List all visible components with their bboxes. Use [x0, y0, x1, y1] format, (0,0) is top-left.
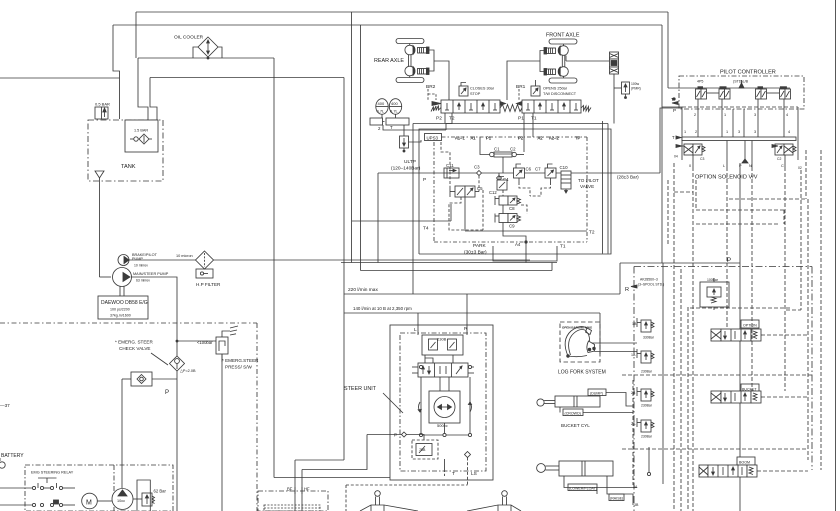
- wire gear pump riser: [121, 379, 123, 488]
- svg-text:(CROWD): (CROWD): [565, 412, 581, 416]
- svg-text:75B: 75B: [419, 448, 426, 452]
- svg-text:100w: 100w: [631, 82, 640, 86]
- spool BOOM: [699, 457, 757, 477]
- pilot controller dashed box: [679, 76, 804, 109]
- svg-text:4: 4: [786, 113, 788, 117]
- svg-text:T1: T1: [560, 244, 566, 250]
- svg-text:T: T: [671, 97, 674, 102]
- svg-text:PARK: PARK: [473, 243, 487, 249]
- svg-text:HF: HF: [304, 487, 310, 492]
- svg-text:T1: T1: [531, 116, 537, 122]
- label LOWER FLOAT: [568, 484, 597, 491]
- svg-text:2: 2: [694, 113, 696, 117]
- wire R header y263: [620, 262, 740, 264]
- svg-text:1A: 1A: [631, 353, 636, 357]
- svg-text:4: 4: [788, 130, 790, 134]
- orifice C1 C2: [490, 152, 517, 157]
- curved arrows: [418, 402, 471, 412]
- svg-text:0.7L: 0.7L: [390, 109, 399, 114]
- boom cylinder: [537, 461, 613, 476]
- wire mcv P line: [739, 163, 741, 511]
- svg-text:(DUMP): (DUMP): [590, 392, 603, 396]
- svg-text:PILOT CONTROLLER: PILOT CONTROLLER: [720, 70, 776, 76]
- svg-text:C3: C3: [474, 165, 480, 170]
- svg-text:OPTION SOLENOID V/V: OPTION SOLENOID V/V: [695, 175, 758, 181]
- main pilot line y173: [378, 172, 660, 174]
- wire press switch down: [221, 354, 223, 511]
- svg-text:OIL COOLER: OIL COOLER: [174, 35, 204, 41]
- wire trunk x352: [351, 12, 353, 263]
- svg-text:0.7L: 0.7L: [377, 109, 386, 114]
- svg-text:R: R: [625, 287, 629, 293]
- engine box DAEWOO: [98, 296, 148, 319]
- svg-text:P2: P2: [518, 136, 524, 141]
- port relief 1A: [637, 349, 654, 363]
- node dot: [673, 98, 675, 100]
- wire steer P line: [367, 434, 402, 436]
- dash BR1 pilot: [518, 89, 520, 100]
- svg-text:3B: 3B: [634, 503, 639, 507]
- svg-text:FRONT AXLE: FRONT AXLE: [546, 33, 580, 39]
- svg-text:* EMERG.STEER: * EMERG.STEER: [222, 358, 259, 363]
- wire pilot valve links: [707, 92, 720, 94]
- spool BUCKET: [711, 384, 761, 403]
- svg-text:BR2: BR2: [426, 84, 436, 90]
- wire steer T drop: [444, 459, 446, 469]
- svg-text:BOOM: BOOM: [739, 461, 750, 465]
- wire left edge line y=78: [0, 77, 120, 79]
- svg-text:A1: A1: [471, 136, 477, 141]
- svg-text:4P5: 4P5: [697, 80, 703, 84]
- pilot valve 3: [756, 86, 767, 99]
- svg-text:37kg.m/1600: 37kg.m/1600: [110, 314, 131, 318]
- pedal left: [360, 491, 418, 511]
- svg-text:A1–1: A1–1: [455, 136, 465, 141]
- svg-text:BUCKET: BUCKET: [742, 388, 757, 392]
- spool OPTION: [711, 320, 761, 341]
- wire pump supply line y=77.5: [150, 77, 344, 79]
- steer internal wires: [419, 355, 471, 437]
- wire boom cyl lines: [564, 476, 633, 488]
- wire top return line y=12: [136, 11, 668, 13]
- leader line: [151, 353, 168, 365]
- wire trunk riser x413: [412, 124, 414, 295]
- main valve outer box: [419, 129, 611, 254]
- pilot supply bar: [668, 80, 790, 88]
- svg-text:2: 2: [378, 126, 381, 131]
- svg-text:A2–2: A2–2: [549, 136, 559, 141]
- svg-text:* EMERG. STEER: * EMERG. STEER: [115, 340, 153, 345]
- svg-text:C2: C2: [777, 157, 781, 161]
- wire TP drain lines: [602, 121, 604, 254]
- valve C7: [545, 164, 556, 182]
- wire cooler line y=58: [138, 57, 274, 59]
- solenoid valve C2 right: [772, 144, 796, 155]
- svg-text:230Bar: 230Bar: [641, 435, 653, 439]
- svg-text:230Bar: 230Bar: [641, 404, 653, 408]
- wire 220 lmin line: [344, 293, 620, 295]
- steer relief pair box: [422, 335, 463, 355]
- wire tank suction to pump: [100, 276, 112, 278]
- brake manifold left block: [441, 100, 500, 113]
- svg-text:L: L: [723, 164, 725, 168]
- wire T4 link y221: [352, 220, 451, 222]
- svg-text:C: C: [781, 164, 784, 168]
- svg-text:C1: C1: [494, 147, 500, 152]
- svg-text:62 Bar: 62 Bar: [154, 489, 167, 494]
- steer unit outer box: [390, 325, 493, 480]
- svg-text:1.5 BAR: 1.5 BAR: [134, 129, 148, 133]
- svg-text:△P=2.0B: △P=2.0B: [180, 369, 196, 373]
- wire left feed to tank: [113, 25, 120, 119]
- svg-text:230B: 230B: [437, 337, 447, 342]
- wire T2 drop: [446, 113, 452, 130]
- accumulator charge valve: [400, 125, 422, 152]
- svg-text:P1: P1: [486, 136, 492, 141]
- svg-text:(120–140Bar): (120–140Bar): [391, 166, 421, 172]
- svg-text:—37: —37: [0, 403, 10, 408]
- valve C6: [514, 164, 525, 182]
- svg-text:C10: C10: [560, 165, 569, 170]
- steer gerotor motor: [429, 391, 460, 423]
- relief valve 62 Bar: [133, 493, 155, 506]
- svg-text:PRESS/ S/W: PRESS/ S/W: [225, 365, 252, 370]
- relay contacts row2: [0, 500, 75, 507]
- solenoid valve C1 left: [676, 144, 705, 155]
- wire left branch riser x378: [377, 173, 379, 263]
- svg-text:04: 04: [674, 155, 678, 159]
- label bottom ports: [689, 164, 784, 168]
- svg-text:P: P: [739, 164, 742, 168]
- svg-text:(28±3 Bar): (28±3 Bar): [617, 175, 639, 180]
- dash pilot trunks right: [622, 150, 821, 511]
- wire front brake lines: [540, 51, 544, 72]
- svg-text:C3: C3: [700, 157, 704, 161]
- bucket cylinder: [537, 396, 600, 407]
- svg-text:T: T: [672, 135, 675, 140]
- svg-text:EMG STEERING RELAY: EMG STEERING RELAY: [31, 471, 74, 475]
- svg-text:140 l/min at 10 B at 2,350 rpm: 140 l/min at 10 B at 2,350 rpm: [353, 306, 412, 311]
- svg-text:BUCKET CYL: BUCKET CYL: [561, 423, 590, 428]
- wire C8 down: [502, 205, 504, 214]
- svg-text:0: 0: [689, 164, 691, 168]
- frame border right: [835, 0, 837, 511]
- wire pilot drops to option block: [698, 99, 784, 137]
- dash ports line y137: [434, 137, 587, 242]
- svg-text:02: 02: [798, 166, 802, 170]
- svg-text:T2: T2: [589, 230, 595, 236]
- svg-text:P: P: [165, 390, 169, 396]
- svg-text:3A: 3A: [633, 485, 638, 489]
- gear pump 10cc: [112, 489, 133, 510]
- wire P1 drop: [523, 113, 525, 152]
- valve UPS3 box: [425, 134, 442, 141]
- wire T1 drop: [532, 113, 534, 137]
- wire manifold trunk y123.5: [413, 123, 608, 125]
- svg-text:MAIN/STEER PUMP: MAIN/STEER PUMP: [133, 272, 169, 276]
- svg-text:C5: C5: [477, 186, 483, 191]
- node C3: [477, 171, 482, 176]
- pilot valve 4: [780, 86, 791, 99]
- wire steer P left routing: [302, 435, 367, 470]
- svg-text:P: P: [423, 177, 426, 183]
- svg-text:500cc: 500cc: [437, 423, 448, 428]
- node circle return: [647, 472, 650, 475]
- wire main line to option P riser: [660, 108, 682, 173]
- svg-text:TANK: TANK: [121, 164, 136, 170]
- dash BR2 pilot: [428, 89, 436, 100]
- wire gauge bar line y130: [383, 125, 446, 130]
- solenoid valve C9: [495, 214, 521, 223]
- svg-text:BF: BF: [287, 487, 293, 492]
- node C4: [497, 173, 502, 181]
- wire mcv R line: [662, 263, 664, 484]
- wire trunk x360: [360, 25, 362, 271]
- oil cooler: [193, 37, 222, 59]
- option solenoid body sides: [662, 107, 798, 160]
- wire lower link end: [551, 263, 553, 271]
- wire steer L R feeds: [417, 313, 419, 335]
- svg-text:OPEN BARGNE MNG: OPEN BARGNE MNG: [562, 326, 593, 330]
- svg-text:3: 3: [754, 113, 756, 117]
- svg-text:VALVE: VALVE: [580, 184, 594, 189]
- option solenoid bar: [682, 137, 796, 141]
- front axle wheels: [544, 39, 577, 83]
- gauge manifold bar: [370, 114, 409, 125]
- manifold left end arrow and spring: [431, 102, 441, 112]
- svg-text:400: 400: [391, 101, 398, 106]
- svg-text:T: T: [452, 471, 455, 477]
- svg-text:2A: 2A: [631, 422, 636, 426]
- svg-text:1: 1: [724, 113, 726, 117]
- wire P2 drop: [444, 113, 446, 124]
- wire R return riser: [619, 263, 621, 294]
- svg-text:1: 1: [726, 130, 728, 134]
- relay box EMG STEERING RELAY: [25, 465, 173, 511]
- valve opens 250bar: [531, 80, 540, 96]
- svg-text:TP: TP: [575, 136, 581, 141]
- label RAISE: [609, 494, 624, 501]
- svg-text:P: P: [394, 433, 397, 439]
- pedal right: [467, 491, 521, 511]
- svg-text:C12: C12: [489, 190, 497, 195]
- wire riser x=151: [150, 78, 157, 121]
- svg-text:CHECK VALVE: CHECK VALVE: [119, 346, 151, 351]
- wire T2 inner line y231: [465, 230, 587, 232]
- svg-text:400: 400: [378, 101, 385, 106]
- valve C11: [444, 168, 459, 178]
- svg-text:A2: A2: [538, 136, 544, 141]
- svg-text:BR1: BR1: [516, 84, 526, 90]
- svg-text:N: N: [749, 164, 752, 168]
- wire C1 feeds: [480, 137, 490, 155]
- svg-text:OPTION: OPTION: [743, 324, 757, 328]
- steer spool 3pos: [412, 363, 474, 377]
- emerg steer dashed enclosure: [0, 323, 257, 511]
- svg-text:(30±3 Bar): (30±3 Bar): [464, 250, 487, 256]
- check valve emerg steer diamond: [170, 356, 185, 371]
- wire trunk x344: [343, 78, 345, 461]
- svg-text:T: T: [390, 125, 393, 130]
- svg-text:OPENS 250ar: OPENS 250ar: [543, 87, 568, 91]
- svg-text:LS: LS: [471, 471, 477, 477]
- label drop numbers: [694, 113, 788, 117]
- label small ports: [631, 322, 639, 507]
- wire rear brake lines: [429, 50, 434, 71]
- svg-text:(PMR): (PMR): [631, 87, 641, 91]
- svg-text:100Bar: 100Bar: [707, 278, 719, 282]
- option block bottom ports: [693, 141, 785, 168]
- wire log fork lines: [592, 342, 638, 344]
- wire motor to gear pump: [97, 500, 112, 502]
- svg-text:STOP: STOP: [470, 92, 481, 96]
- steer unit inner dashed box: [400, 333, 486, 471]
- motor M: [82, 493, 98, 509]
- svg-text:P1: P1: [518, 116, 524, 122]
- svg-text:C6: C6: [526, 167, 532, 172]
- svg-text:L: L: [414, 327, 417, 333]
- wire trunk x275: [273, 58, 275, 478]
- svg-text:1B: 1B: [632, 322, 637, 326]
- svg-text:P: P: [673, 108, 676, 113]
- svg-text:P: P: [727, 258, 731, 264]
- wire 140 lmin line: [344, 312, 600, 314]
- wire boom port links: [633, 487, 637, 489]
- port relief 1B: [637, 318, 654, 332]
- port relief 2B: [637, 387, 654, 401]
- svg-text:10cc: 10cc: [117, 499, 125, 503]
- pilot valve 1: [696, 86, 707, 99]
- log fork box: [560, 322, 600, 362]
- svg-text:H.P FILTER: H.P FILTER: [196, 282, 221, 287]
- wire bucket cyl lines: [606, 393, 633, 407]
- pump brake/pilot (small): [118, 255, 129, 266]
- check valve lower (boxed): [122, 372, 177, 386]
- wire filter to right y=260: [214, 259, 531, 261]
- svg-text:DAEWOO DB58 E/G: DAEWOO DB58 E/G: [101, 300, 148, 306]
- svg-text:STEER UNIT: STEER UNIT: [344, 386, 377, 392]
- port relief 2A: [637, 418, 654, 432]
- main relief 100Bar block: [700, 278, 729, 310]
- svg-text:A4: A4: [515, 242, 521, 247]
- wire TW valve down: [613, 74, 615, 124]
- svg-text:C2: C2: [510, 147, 516, 152]
- pedal box BF HF: [258, 487, 328, 511]
- svg-text:230Bar: 230Bar: [641, 370, 653, 374]
- svg-text:UPS3: UPS3: [427, 136, 439, 141]
- svg-text:220 l/min max: 220 l/min max: [348, 287, 378, 293]
- dash pilot interconnects center: [441, 142, 551, 230]
- wire junction y261: [341, 262, 557, 264]
- park sub box: [493, 246, 557, 261]
- svg-text:3: 3: [754, 130, 756, 134]
- gauge 400 right: [389, 99, 401, 115]
- svg-text:330Bar: 330Bar: [643, 336, 655, 340]
- solenoid valve C8: [495, 196, 521, 205]
- svg-text:ULTP: ULTP: [404, 159, 416, 165]
- svg-text:(RAISE): (RAISE): [610, 497, 623, 501]
- svg-text:TO PILOT: TO PILOT: [578, 178, 599, 183]
- wire front axle to TW valve: [566, 60, 610, 62]
- steer P port: [402, 432, 407, 437]
- tank dashed box: [88, 120, 163, 181]
- svg-text:10 micron: 10 micron: [176, 254, 193, 258]
- svg-text:P2: P2: [436, 116, 442, 122]
- svg-text:T/W DISCONNECT: T/W DISCONNECT: [543, 92, 577, 96]
- svg-text:REAR AXLE: REAR AXLE: [374, 58, 404, 64]
- valve 1.5 BAR in-tank relief box: [125, 120, 158, 152]
- svg-text:(STD)L/B: (STD)L/B: [733, 80, 749, 84]
- wire riser x=136: [135, 12, 137, 58]
- svg-text:C9: C9: [509, 224, 515, 229]
- svg-text:10 ml/rev: 10 ml/rev: [134, 264, 148, 268]
- svg-text:(3–SPOOL STD.): (3–SPOOL STD.): [638, 283, 664, 287]
- valve closes 30bar: [459, 83, 468, 97]
- wire A4 drop: [525, 242, 527, 263]
- wire C9 down to A4: [503, 223, 526, 243]
- pedal box hatch: [264, 505, 320, 511]
- pump main/steer: [113, 268, 132, 287]
- svg-text:BATTERY: BATTERY: [1, 453, 24, 459]
- svg-text:M: M: [86, 500, 92, 507]
- node A4: [525, 241, 527, 243]
- svg-text:C7: C7: [535, 167, 541, 172]
- valve T/W disconnect stack: [610, 52, 619, 74]
- valve C5 pair: [450, 186, 479, 197]
- battery symbol: [0, 458, 5, 468]
- steer priority valve dashed: [407, 435, 439, 460]
- label DUMP: [588, 389, 606, 396]
- wire second top line y=25: [113, 24, 662, 26]
- valve C12: [497, 177, 507, 191]
- valve C10 filter: [561, 171, 571, 193]
- dash LS drop: [346, 458, 468, 511]
- wire T4 riser: [450, 204, 452, 221]
- wire to pressure switch: [177, 340, 216, 342]
- rear axle wheels: [396, 39, 429, 83]
- label CROWD: [563, 409, 583, 416]
- svg-text:100 ps/2200: 100 ps/2200: [110, 308, 130, 312]
- wire tank drop from cooler line: [138, 58, 148, 120]
- wire main pump discharge: [132, 277, 178, 511]
- pilot valve 2: [719, 86, 730, 99]
- wire x600 drop to log fork lines: [599, 313, 601, 354]
- manifold right end spring: [581, 106, 591, 112]
- tank breather triangle: [95, 171, 104, 277]
- gauge 400 left: [376, 99, 388, 115]
- filter HP diamond: [196, 251, 214, 278]
- svg-text:63 ml/rev: 63 ml/rev: [136, 279, 150, 283]
- svg-text:1: 1: [684, 130, 686, 134]
- MCV dash-dot outer box: [634, 267, 812, 511]
- wire pump discharge small y=260: [129, 259, 196, 261]
- leader steer unit: [383, 393, 403, 413]
- relief sub box: [137, 480, 150, 511]
- svg-text:3: 3: [738, 130, 740, 134]
- svg-text:2: 2: [695, 130, 697, 134]
- pressure switch emerg steer: [216, 331, 230, 362]
- manifold center tw spring: [500, 102, 522, 112]
- svg-text:C8: C8: [509, 206, 515, 211]
- ground symbol E: [230, 326, 238, 335]
- dash mcv right column: [632, 380, 634, 485]
- svg-text:LOG FORK SYSTEM: LOG FORK SYSTEM: [558, 370, 606, 376]
- svg-text:CLOSES 30ar: CLOSES 30ar: [470, 87, 495, 91]
- svg-text:AK28560–3: AK28560–3: [640, 278, 658, 282]
- valve 100u PMR: [614, 82, 630, 99]
- relay contacts row1: [32, 478, 75, 490]
- node LS diamond: [465, 452, 471, 458]
